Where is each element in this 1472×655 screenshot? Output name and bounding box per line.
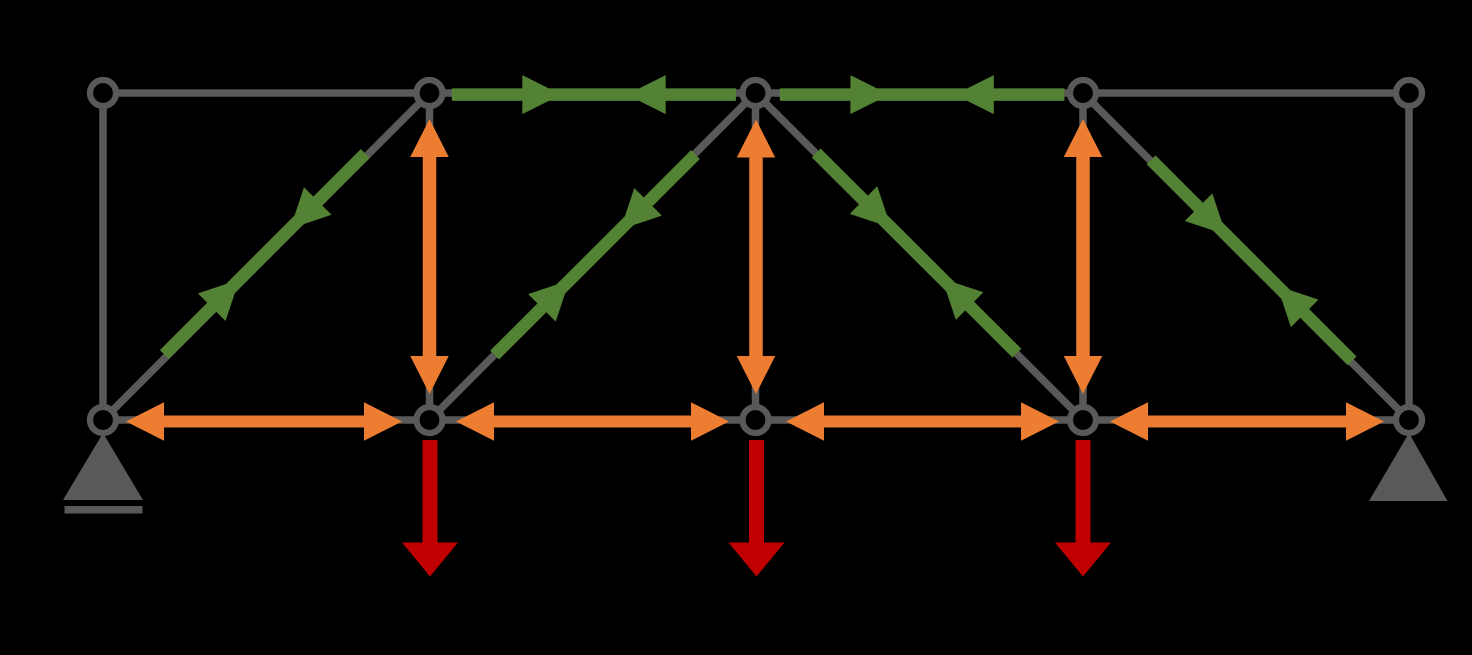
node B1	[90, 407, 116, 433]
gray truss skeleton	[103, 93, 1409, 420]
orange compression member vertical V2	[410, 119, 449, 394]
pin support left	[63, 433, 143, 500]
red load arrow P3 at node B4	[1055, 440, 1111, 577]
orange compression member bottom chord B2-B3	[456, 402, 729, 441]
orange compression member vertical V4	[1064, 119, 1103, 394]
wire vertical member V3	[752, 93, 760, 420]
green tension member diagonal D4	[1151, 160, 1352, 361]
red load arrow P2 at node B3	[729, 440, 785, 577]
node T5	[1396, 80, 1422, 106]
roller support right	[1369, 433, 1448, 501]
orange compression member vertical V3	[737, 120, 776, 395]
orange compression member bottom chord B3-B4	[786, 402, 1059, 441]
wire vertical member V4	[1079, 93, 1087, 420]
node B2	[417, 407, 443, 433]
wire vertical member right end	[1405, 93, 1413, 420]
green tension member top chord T3-T4	[780, 75, 1065, 114]
wire top chord	[103, 89, 1409, 97]
node T2	[417, 80, 443, 106]
green tension member diagonal D2	[495, 155, 696, 356]
node T1	[90, 80, 116, 106]
red load arrow P1 at node B2	[402, 440, 458, 577]
orange compression member bottom chord B4-B5	[1110, 402, 1384, 441]
wire vertical member left end	[99, 93, 107, 420]
wire diagonal member D4	[1083, 93, 1409, 420]
wire diagonal member D3	[756, 93, 1084, 420]
node B4	[1070, 407, 1096, 433]
node B3	[743, 407, 769, 433]
node B5	[1396, 407, 1422, 433]
node T4	[1070, 80, 1096, 106]
wire diagonal member D1	[103, 93, 430, 420]
green tension member top chord T2-T3	[452, 75, 736, 114]
green tension member diagonal D3	[816, 153, 1017, 353]
orange compression member bottom chord B1-B2	[126, 402, 402, 441]
ground line left support	[65, 506, 143, 514]
green tension member diagonal D1	[164, 154, 365, 355]
wire diagonal member D2	[430, 93, 756, 420]
wire bottom chord	[103, 416, 1409, 424]
wire vertical member V2	[426, 93, 434, 420]
node T3	[743, 80, 769, 106]
